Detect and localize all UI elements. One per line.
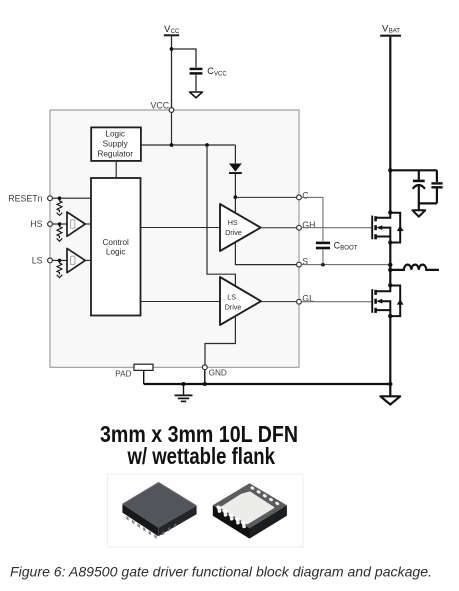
heading line 2 (127, 443, 276, 469)
wire to CVCC (172, 49, 197, 67)
svg-text:VCC: VCC (214, 72, 227, 78)
diode D1 (229, 145, 242, 197)
svg-text:Drive: Drive (225, 228, 242, 237)
wire GL to Q2 gate (301, 301, 371, 303)
svg-text:RESETn: RESETn (8, 193, 42, 203)
svg-text:Drive: Drive (225, 302, 242, 311)
body diode Q1 (390, 213, 400, 243)
resistor R3 (57, 260, 63, 277)
wire HS to buffer (52, 223, 67, 225)
wire diode node into HS drive top (234, 197, 236, 213)
svg-text:HS: HS (228, 218, 238, 227)
node vcc-cap junction (170, 47, 174, 51)
wire VBAT down (389, 37, 391, 213)
resistor R2 (57, 224, 63, 241)
wire caps to ground (418, 203, 420, 209)
package left (3D top view) (122, 483, 196, 539)
capacitor CBOOT (301, 197, 357, 264)
buffer U2 (HS schmitt) (67, 212, 85, 236)
node diode-C (234, 195, 238, 199)
heading line 1 (100, 421, 298, 447)
node LS pulldown (58, 259, 62, 263)
pin LS (32, 256, 53, 266)
svg-text:VCC: VCC (151, 100, 170, 110)
ground (chevron) for bulk caps (412, 210, 425, 216)
wire LS buffer to control (85, 259, 91, 261)
transistor Q2 (low side NMOS) (372, 283, 403, 318)
wire Q2 source to ground (389, 316, 391, 396)
regulator block Logic Supply Regulator (91, 127, 141, 160)
svg-text:Control: Control (102, 238, 129, 247)
node rail-vcc (170, 143, 174, 147)
pin VCC (151, 100, 174, 112)
svg-text:BAT: BAT (389, 28, 401, 34)
wire LS drive out to pin GL (261, 301, 298, 303)
wire control to LS drive (141, 301, 221, 303)
pin GND (202, 365, 226, 378)
wire diode node to pin C (235, 196, 298, 198)
pin HS (30, 219, 52, 229)
node RESETn pulldown (58, 196, 62, 200)
capacitor C2 (bulk) (431, 170, 442, 203)
wire RESETn to control logic (52, 197, 91, 199)
node rail-lsdrive (205, 143, 209, 147)
svg-text:PAD: PAD (115, 369, 131, 378)
node switch-S (388, 263, 392, 267)
control logic block (91, 178, 141, 316)
supply VBAT (380, 24, 401, 36)
svg-text:HS: HS (30, 219, 42, 229)
svg-text:GND: GND (209, 368, 227, 377)
ground (triangle) right (380, 396, 400, 404)
resistor R1 (57, 198, 63, 215)
wire caps bottom link (419, 202, 437, 204)
wire S to switch node (301, 264, 390, 266)
svg-text:BOOT: BOOT (340, 246, 357, 252)
wire GH to Q1 gate (301, 227, 371, 229)
capacitor CVCC (190, 66, 228, 77)
wire regulator output rail (141, 144, 236, 146)
wire regulator to control logic (115, 161, 117, 179)
caption (10, 565, 432, 580)
node HS pulldown (58, 222, 62, 226)
wire VCC vertical (171, 36, 173, 108)
svg-text:C: C (302, 190, 309, 200)
node vbat-caps (388, 168, 392, 172)
svg-text:CC: CC (171, 29, 180, 35)
node switch-L (388, 268, 392, 272)
svg-text:w/ wettable flank: w/ wettable flank (127, 443, 276, 469)
wire PAD down to gnd rail (143, 370, 145, 384)
pin C (297, 190, 310, 200)
capacitor C1 (polarized bulk) (413, 170, 425, 203)
wire to bulk caps (390, 169, 437, 171)
svg-text:Figure 6: A89500 gate driver f: Figure 6: A89500 gate driver functional … (10, 565, 432, 580)
pin GH (297, 220, 316, 230)
svg-text:Logic: Logic (105, 130, 125, 139)
pin S (297, 257, 309, 268)
wire control to HS drive (141, 227, 221, 229)
pin RESETn (8, 193, 52, 203)
node pad-earth (182, 382, 186, 386)
wire Q1 source down (389, 243, 391, 286)
wire LS to buffer (52, 259, 67, 261)
package right (bottom view) (213, 483, 287, 538)
node cboot bottom (321, 263, 325, 267)
wire LS drive supply (207, 145, 235, 286)
buffer U3 (LS schmitt) (67, 248, 85, 272)
transistor Q1 (high side NMOS) (372, 210, 403, 244)
IC boundary (50, 110, 299, 367)
wire VCC pin down to rail (171, 112, 173, 145)
svg-text:Logic: Logic (106, 248, 126, 257)
inductor L1 (390, 265, 439, 270)
op-amp HS Drive (220, 204, 261, 251)
node gndrail-right (388, 382, 392, 386)
node gnd-rail (203, 382, 207, 386)
wire GND pin down to rail (204, 370, 206, 384)
wire LS drive bottom to GND pin (205, 316, 235, 365)
wire ground rail (144, 383, 391, 385)
wire CVCC to ground (195, 75, 197, 92)
body diode Q2 (390, 286, 400, 317)
pin PAD (115, 364, 153, 378)
ground (chevron) for CVCC (190, 92, 203, 98)
svg-text:GH: GH (302, 220, 315, 230)
wire HS buffer to control (85, 223, 91, 225)
pin GL (297, 294, 315, 305)
svg-text:LS: LS (227, 293, 236, 302)
wire HS drive bottom to S (235, 242, 298, 265)
ground (earth) symbol (175, 384, 193, 401)
svg-text:LS: LS (32, 256, 43, 266)
op-amp LS Drive (220, 277, 261, 325)
svg-text:Supply: Supply (103, 139, 129, 148)
wire HS drive out to pin GH (261, 227, 298, 229)
svg-text:Regulator: Regulator (97, 149, 133, 158)
package photo frame (108, 474, 304, 547)
supply VCC (164, 24, 180, 35)
